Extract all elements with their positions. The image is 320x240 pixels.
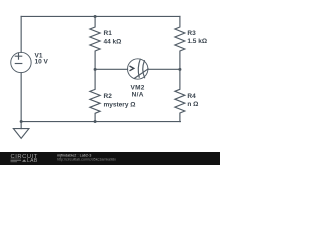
resistor R4 <box>175 69 185 122</box>
label R3 value <box>187 30 207 45</box>
svg-text:n Ω: n Ω <box>187 101 198 108</box>
label R4 value <box>187 93 198 108</box>
footer credits text <box>57 153 116 161</box>
svg-text:N/A: N/A <box>132 91 144 98</box>
wire left upper <box>20 16 22 52</box>
resistor R3 <box>175 16 185 69</box>
label R1 value <box>104 30 122 45</box>
resistor R1 <box>90 16 100 69</box>
svg-text:44 kΩ: 44 kΩ <box>104 38 122 45</box>
wire left lower <box>20 73 22 122</box>
svg-text:10 V: 10 V <box>35 59 49 66</box>
wire bottom <box>21 121 180 123</box>
svg-text:mystery Ω: mystery Ω <box>104 102 136 109</box>
svg-text:R2: R2 <box>104 93 113 100</box>
voltmeter glyph <box>130 66 134 71</box>
node junction mid-right <box>178 68 181 71</box>
node junction mid-left <box>94 68 97 71</box>
svg-text:mjfindable2 : Lab2-3: mjfindable2 : Lab2-3 <box>57 153 91 157</box>
footer logo CircuitLab <box>11 154 38 164</box>
svg-text:R4: R4 <box>187 93 196 100</box>
label VM2 value <box>130 85 144 99</box>
node junction top-middle <box>94 15 97 18</box>
svg-text:1.5 kΩ: 1.5 kΩ <box>187 38 207 45</box>
svg-text:R1: R1 <box>104 30 113 37</box>
label V1 value <box>35 52 49 65</box>
resistor R2 <box>90 69 100 122</box>
svg-text:http://circuitlab.com/c/d5kc3a: http://circuitlab.com/c/d5kc3amka98x <box>57 158 116 162</box>
wire top <box>21 15 180 17</box>
wire voltmeter left <box>95 68 128 70</box>
svg-text:R3: R3 <box>187 30 196 37</box>
footer bar <box>0 152 220 165</box>
node junction bottom-left <box>20 120 23 123</box>
node junction bottom-middle <box>94 120 97 123</box>
svg-text:LAB: LAB <box>27 158 38 164</box>
voltage source V1 <box>11 52 31 72</box>
ground <box>13 122 29 139</box>
wire voltmeter right <box>148 68 180 70</box>
label R2 value <box>104 93 136 108</box>
voltmeter VM2 <box>128 59 149 79</box>
